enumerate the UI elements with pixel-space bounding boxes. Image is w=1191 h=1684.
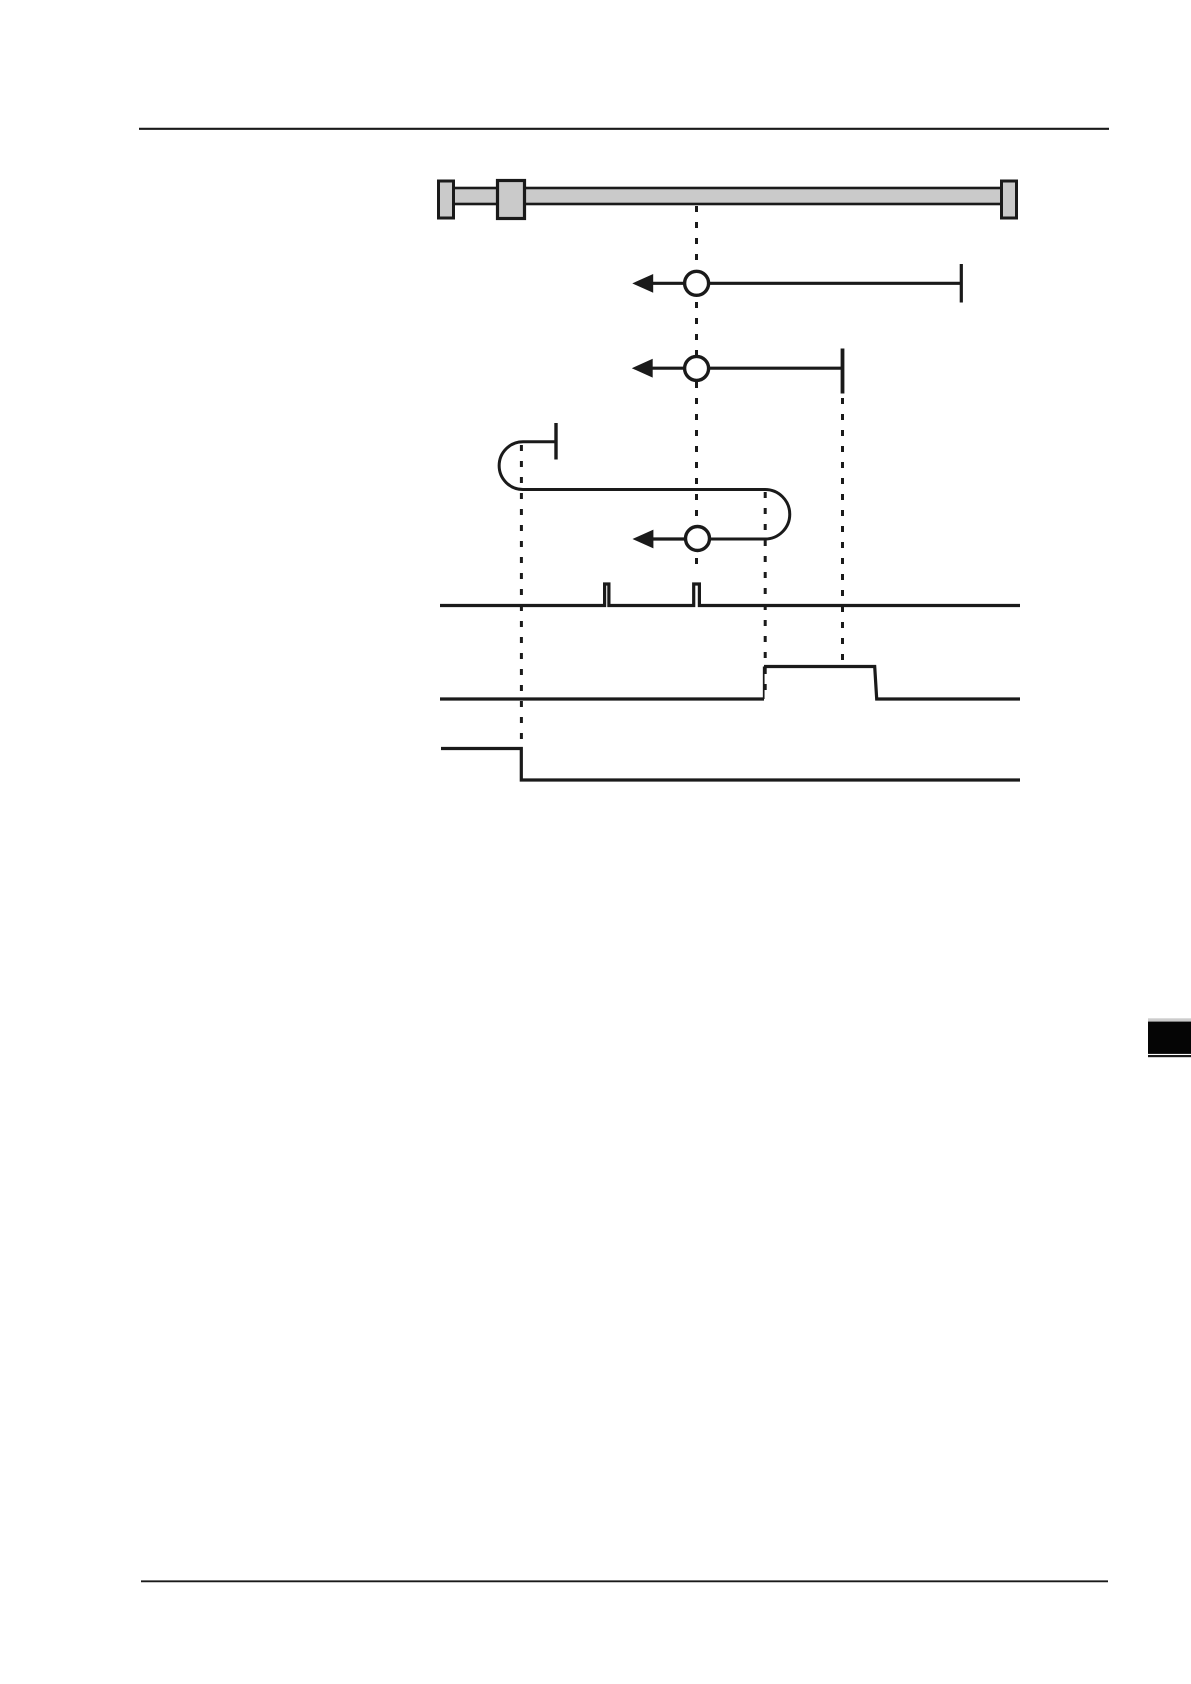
linear axis rail bar [446, 188, 1009, 204]
motion 3 arrow line [651, 537, 685, 540]
signal 1: index pulse train [440, 584, 1020, 606]
signal 3: home switch level [441, 749, 1020, 781]
dashed line from motion 2 tick [841, 398, 844, 665]
motion 2 arrowhead [632, 359, 653, 378]
carriage block [498, 181, 525, 219]
page thumb tab highlight [1148, 1018, 1191, 1021]
signal 2 rising edge [763, 667, 765, 700]
motion 3 index circle [686, 527, 710, 551]
motion 1 end tick [960, 264, 963, 303]
left end stop [439, 181, 454, 218]
motion 3 arrowhead [633, 530, 654, 549]
dashed line from reversal start [520, 445, 523, 748]
signal 2 high level and falling edge [764, 667, 1020, 700]
motion 3 start tick [554, 423, 557, 460]
motion 1: line with end tick [650, 282, 962, 285]
dashed index line (center) [695, 206, 698, 573]
footer rule [141, 1580, 1108, 1582]
page thumb tab [1148, 1022, 1191, 1054]
header rule [139, 128, 1109, 130]
motion 3 reversal path [499, 442, 790, 539]
motion 2 index circle [685, 356, 709, 380]
motion 2: line with end tick [650, 367, 843, 370]
motion 1 arrowhead [632, 274, 653, 293]
signal 2: switch level [440, 697, 764, 700]
page thumb tab underline [1148, 1055, 1191, 1057]
right end stop [1002, 181, 1017, 218]
motion 1 index circle [685, 271, 709, 295]
motion 2 end tick [841, 349, 845, 394]
dashed line from reversal turnaround [764, 492, 767, 698]
